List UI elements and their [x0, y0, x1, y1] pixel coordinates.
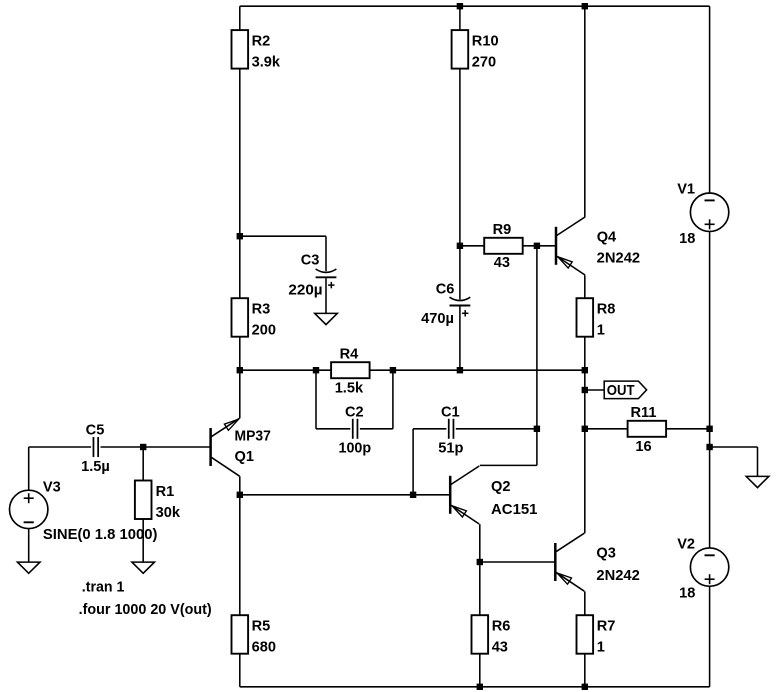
resistor R8 (1): [577, 298, 616, 339]
svg-text:OUT: OUT: [607, 383, 635, 399]
resistor R6 (43): [472, 615, 511, 656]
svg-text:C2: C2: [345, 404, 364, 420]
node: bottom rail / R6: [477, 684, 483, 690]
svg-text:.four 1000 20 V(out): .four 1000 20 V(out): [79, 602, 212, 618]
svg-text:470µ: 470µ: [421, 311, 454, 327]
wire: top supply rail: [240, 5, 710, 7]
node: R11 right / V rail: [706, 426, 712, 432]
wire: Q2 collector horizontal: [480, 464, 537, 466]
svg-text:V1: V1: [677, 182, 695, 198]
resistor R9 (43): [484, 222, 523, 271]
svg-text:R10: R10: [472, 33, 499, 49]
wire: OUT node to Q3 collector: [584, 429, 586, 534]
wire: R11 right lead: [666, 428, 710, 430]
svg-text:Q2: Q2: [491, 479, 510, 495]
svg-text:Q3: Q3: [596, 546, 615, 562]
svg-text:220µ: 220µ: [288, 283, 322, 299]
wire: Q4 emitter to R8: [584, 275, 586, 298]
node: R9 / Q4 base / feedback: [534, 243, 540, 249]
wire: V1 top lead: [709, 6, 711, 193]
wire: R9 right lead to Q4 base: [523, 245, 556, 247]
wire: R6 bottom lead: [479, 654, 481, 687]
ground (V3): [17, 562, 40, 573]
svg-text:680: 680: [252, 640, 276, 656]
node: C5 / R1 / Q1 base: [140, 444, 146, 450]
node: mid rail / R4 right / C2: [390, 367, 396, 373]
wire: C1 left lead: [413, 428, 446, 430]
wire: R9 node to C6: [459, 246, 461, 300]
svg-text:16: 16: [635, 439, 651, 455]
svg-text:200: 200: [252, 323, 276, 339]
node: C1 right / feedback: [534, 426, 540, 432]
node: mid rail / R8 / OUT branch: [582, 367, 588, 373]
svg-text:100p: 100p: [339, 441, 372, 457]
capacitor C6 (470µ, polarized): [421, 282, 470, 327]
wire: Q3 base: [480, 561, 556, 563]
ground (C3): [315, 313, 338, 324]
node: R10 / R9 / C6: [457, 243, 463, 249]
node: mid rail / C6: [457, 367, 463, 373]
svg-text:R11: R11: [631, 405, 657, 421]
wire: mid rail left of R4: [240, 369, 331, 371]
wire: mid rail to Q1 emitter: [239, 370, 241, 418]
wire: Q4 base node down to Q2 collector corner: [536, 246, 538, 466]
wire: Q2 emitter node to R6: [479, 562, 481, 615]
svg-text:V2: V2: [677, 536, 695, 552]
node: OUT flag tap: [582, 387, 588, 393]
resistor R11 (16): [628, 405, 667, 455]
svg-text:C5: C5: [86, 422, 105, 438]
svg-text:18: 18: [679, 586, 695, 602]
wire: C3 branch: [240, 236, 326, 271]
wire: R9 left lead: [460, 245, 484, 247]
wire: R1 top lead: [142, 447, 144, 481]
wire: R2 bottom to C3 node: [239, 69, 241, 237]
svg-text:R5: R5: [252, 619, 271, 635]
wire: R1 bottom to ground: [142, 519, 144, 562]
resistor R2 (3.9k): [232, 30, 281, 71]
node: top rail / Q4 collector: [582, 3, 588, 9]
svg-text:C1: C1: [441, 404, 460, 420]
svg-text:R6: R6: [492, 619, 511, 635]
resistor R4 (1.5k): [331, 347, 370, 397]
svg-text:Q4: Q4: [597, 229, 617, 245]
wire: C3 to ground: [325, 278, 327, 313]
wire: R5 bottom lead: [239, 654, 241, 687]
node: C1 branch / base wire: [410, 492, 416, 498]
wire: R7 bottom lead: [584, 654, 586, 687]
svg-text:C6: C6: [436, 282, 455, 298]
wire: input from V3 to C5: [29, 446, 91, 448]
wire: R11 left lead: [585, 428, 628, 430]
svg-text:R8: R8: [597, 302, 616, 318]
svg-text:C3: C3: [301, 252, 320, 268]
node: R2-R3 / C3 tap: [237, 233, 243, 239]
wire: R2 top lead: [239, 6, 241, 30]
svg-text:MP37: MP37: [235, 429, 271, 445]
resistor R3 (200): [232, 298, 276, 339]
wire: V3 top lead: [28, 447, 30, 490]
voltage source V1 (18): [677, 182, 729, 247]
wire: R3 bottom to mid rail: [239, 337, 241, 371]
svg-text:R2: R2: [252, 33, 271, 49]
wire: C1 right lead: [456, 428, 537, 430]
ground (right rail): [746, 476, 769, 487]
resistor R5 (680): [232, 615, 276, 656]
node: Q2 emitter / Q3 base / R6: [477, 559, 483, 565]
resistor R7 (1): [577, 615, 616, 656]
svg-text:43: 43: [494, 255, 510, 271]
svg-text:AC151: AC151: [491, 502, 538, 518]
transistor Q4 (2N242): [556, 217, 640, 275]
svg-text:Q1: Q1: [235, 449, 254, 465]
svg-text:43: 43: [492, 640, 508, 656]
wire: R10 top lead: [459, 6, 461, 30]
svg-text:1.5k: 1.5k: [335, 380, 364, 396]
wire: C2 bypass loop left: [316, 370, 350, 429]
capacitor C2 (100p): [339, 404, 372, 456]
wire: bottom rail: [240, 686, 710, 688]
transistor Q3 (2N242): [555, 533, 640, 591]
svg-text:R7: R7: [597, 619, 616, 635]
wire: mid rail right of R4: [370, 369, 585, 371]
node: top rail / R10: [457, 3, 463, 9]
svg-text:R1: R1: [156, 484, 175, 500]
svg-text:18: 18: [679, 231, 695, 247]
svg-text:270: 270: [472, 55, 496, 71]
svg-text:V3: V3: [43, 479, 61, 495]
wire: C6 to mid rail: [459, 306, 461, 370]
wire: R8 bottom through OUT node: [584, 337, 586, 429]
wire: C1 branch vertical: [412, 429, 414, 495]
wire: Q1 collector down to R5: [239, 476, 241, 615]
wire: C5 to Q1 base: [101, 446, 211, 448]
wire: R10 bottom to R9 node: [459, 69, 461, 246]
transistor Q2 (AC151): [450, 466, 537, 524]
capacitor C5 (1.5µ): [81, 422, 110, 474]
node: bottom rail / R7: [582, 684, 588, 690]
node: mid rail / R4 left / C2: [313, 367, 319, 373]
svg-text:3.9k: 3.9k: [252, 55, 281, 71]
wire: Q1 collector node to Q2 base: [240, 494, 450, 496]
capacitor C3 (220µ, polarized): [288, 252, 336, 298]
node: mid rail / R3: [237, 367, 243, 373]
svg-text:1: 1: [597, 323, 605, 339]
node OUT (output flag): [604, 381, 646, 399]
node: Q1 collector / R5 / base wire: [237, 492, 243, 498]
node: ground tap / V rail: [706, 444, 712, 450]
resistor R1 (30k): [135, 481, 181, 522]
wire: OUT flag stub: [585, 389, 604, 391]
svg-text:2N242: 2N242: [596, 568, 639, 584]
wire: Q2 emitter down: [479, 524, 481, 562]
voltage source V2 (18): [677, 536, 729, 601]
svg-text:SINE(0 1.8 1000): SINE(0 1.8 1000): [43, 527, 158, 543]
svg-text:R3: R3: [252, 302, 271, 318]
svg-text:R4: R4: [340, 347, 360, 363]
wire: ground tap from V rail: [710, 447, 758, 476]
wire: C2 bypass loop right: [360, 370, 393, 429]
wire: C3 node to R3: [239, 236, 241, 298]
svg-text:.tran 1: .tran 1: [82, 580, 125, 596]
svg-text:2N242: 2N242: [597, 250, 640, 266]
svg-text:1: 1: [597, 640, 605, 656]
wire: V3 bottom to ground: [28, 529, 30, 563]
wire: Q3 emitter to R7: [584, 591, 586, 615]
resistor R10 (270): [452, 30, 499, 71]
ground (R1): [132, 562, 155, 573]
capacitor C1 (51p): [438, 404, 463, 456]
svg-text:30k: 30k: [156, 505, 181, 521]
wire: V2 bottom lead: [709, 586, 711, 687]
voltage source V3 (SINE(0 1.8 1000)): [10, 479, 158, 543]
node: R11 left / OUT net: [582, 426, 588, 432]
transistor Q1 (MP37): [211, 418, 271, 476]
wire: Q4 collector from top rail: [584, 6, 586, 217]
svg-text:R9: R9: [493, 222, 512, 238]
svg-text:51p: 51p: [438, 441, 463, 457]
wire: V1 to V2: [709, 231, 711, 548]
svg-text:1.5µ: 1.5µ: [81, 459, 110, 475]
